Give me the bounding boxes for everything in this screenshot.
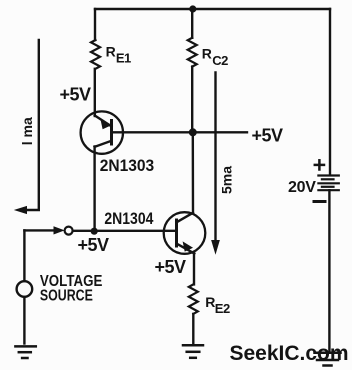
battery minus sign [314,200,325,203]
input arrow head [54,227,63,234]
wire RE1 bottom to Q1 emitter [94,69,96,116]
ground middle [183,345,203,358]
transistor Q2 2N1304 [164,212,206,254]
svg-text:20V: 20V [288,179,316,196]
wire junction to Q2 collector [192,132,195,213]
wire VS down [23,297,25,344]
battery B1 20V [318,176,338,191]
resistor RE1 [91,40,100,69]
wire Q1 base to +5V [112,131,248,133]
ground right [315,353,341,366]
current arrow 1 ma [16,40,39,213]
wire Q2 emitter down [193,254,195,285]
svg-text:C2: C2 [212,53,228,68]
wire RC2 top drop [191,9,193,38]
wire RE1 top drop [94,9,96,40]
wire Q1 collector down to node [93,147,95,232]
wire battery drop [329,9,331,174]
svg-text:R: R [205,294,215,310]
wire input horizontal [24,229,56,231]
node junction dot collector/base [91,228,98,235]
svg-text:2N1304: 2N1304 [104,210,154,228]
svg-text:R: R [106,43,116,59]
svg-text:+5V: +5V [155,257,187,277]
wire RE2 to ground [192,314,194,345]
wire terminal to Q2 base [73,230,177,232]
svg-text:R: R [202,45,212,61]
resistor RE2 [189,284,198,314]
voltage source VS [17,281,33,297]
svg-text:+5V: +5V [252,126,284,146]
svg-text:5ma: 5ma [219,166,235,194]
svg-text:+5V: +5V [78,235,110,255]
wire battery to ground [328,190,330,351]
wire RC2 bottom to junction [191,67,193,133]
svg-text:2N1303: 2N1303 [100,157,155,175]
wire top rail [95,8,330,10]
wire VS up [23,230,25,281]
battery plus sign [315,160,324,169]
terminal open circle [65,227,73,235]
node junction dot top rail [189,5,196,12]
node junction dot base/RC2 [189,128,197,136]
transistor Q1 2N1303 [81,111,123,153]
svg-text:SOURCE: SOURCE [40,288,93,305]
svg-text:E2: E2 [215,301,230,316]
resistor RC2 [188,38,197,67]
current arrow 5 ma [212,73,219,254]
svg-text:+5V: +5V [60,85,92,105]
svg-text:l ma: l ma [19,117,35,145]
svg-text:E1: E1 [116,51,131,66]
ground left [15,346,35,358]
